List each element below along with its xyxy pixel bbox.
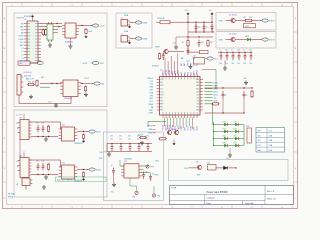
svg-text:RN1: RN1 <box>246 126 249 128</box>
svg-text:VIN5V: VIN5V <box>163 69 165 75</box>
resistor R31 <box>82 172 84 178</box>
test point TP3 <box>152 194 155 197</box>
power arrow 5V-OUT2 <box>262 38 268 41</box>
capacitor C32 <box>129 143 130 144</box>
capacitor C30 <box>111 143 112 144</box>
capacitor C41 <box>42 163 45 171</box>
svg-text:VCC3: VCC3 <box>178 71 180 76</box>
svg-text:DP2: DP2 <box>150 95 154 97</box>
svg-text:CC2: CC2 <box>150 84 154 86</box>
svg-text:J2: J2 <box>121 33 123 35</box>
power arrow +5V-OUT <box>93 24 99 27</box>
svg-text:1u: 1u <box>246 94 248 96</box>
inductor L2 power path <box>18 61 30 65</box>
svg-text:U15: U15 <box>62 162 65 164</box>
svg-text:FB1: FB1 <box>160 107 163 109</box>
svg-text:+5V-P: +5V-P <box>100 25 106 27</box>
svg-text:Q2 SI2301: Q2 SI2301 <box>229 33 237 35</box>
svg-text:IP5328: IP5328 <box>152 65 159 67</box>
wires right of U1 <box>205 82 213 84</box>
svg-text:SW: SW <box>21 33 24 35</box>
IC U12 CW6306 boost <box>124 164 139 178</box>
current table <box>256 128 285 153</box>
LED D15 <box>234 137 239 140</box>
svg-text:10u: 10u <box>198 27 201 29</box>
svg-text:1u: 1u <box>219 50 221 52</box>
resistor R2 4.7K <box>244 19 253 21</box>
svg-text:G: G <box>4 198 6 200</box>
svg-text:U14: U14 <box>19 155 22 157</box>
ground <box>54 103 58 107</box>
svg-text:KEY: KEY <box>160 97 163 99</box>
svg-text:1u: 1u <box>206 27 208 29</box>
svg-text:U13: U13 <box>207 162 210 164</box>
svg-text:104: 104 <box>231 63 234 65</box>
resistor R24 <box>84 86 86 93</box>
transistor Q2 <box>231 37 235 41</box>
svg-text:VIN: VIN <box>160 79 163 81</box>
resistor R20 <box>42 29 44 37</box>
svg-text:U5: U5 <box>24 19 26 21</box>
svg-text:FB2: FB2 <box>160 110 163 112</box>
wire U6 outputs <box>79 25 93 27</box>
wire <box>49 42 51 43</box>
wire risers from U1 bottom <box>164 118 166 127</box>
section box: OTG boost control <box>169 160 289 181</box>
resistor R16 with labels <box>139 137 147 139</box>
svg-text:Sheet: 1/1: Sheet: 1/1 <box>267 198 276 201</box>
power arrow 5V0 <box>94 82 100 85</box>
resistor network RN1 <box>247 128 252 143</box>
svg-text:D17: D17 <box>234 143 237 145</box>
svg-text:SW2: SW2 <box>196 82 199 84</box>
svg-text:U11: U11 <box>193 56 196 58</box>
svg-text:DP1: DP1 <box>150 90 154 92</box>
wire <box>228 131 234 133</box>
capacitor C23 <box>238 52 239 53</box>
ground flag <box>82 178 85 181</box>
svg-text:VB: VB <box>162 54 164 56</box>
wire <box>142 165 148 167</box>
resistor R23 <box>27 84 35 86</box>
ground <box>48 43 52 47</box>
title block frame <box>170 186 294 205</box>
svg-text:5VIN2: 5VIN2 <box>142 38 147 40</box>
svg-text:C32: C32 <box>128 136 131 138</box>
svg-text:5V0: 5V0 <box>99 152 102 154</box>
svg-text:104: 104 <box>243 63 246 65</box>
svg-text:TITLE:: TITLE: <box>171 187 177 189</box>
svg-text:10u: 10u <box>237 50 240 52</box>
wire <box>239 138 244 140</box>
green rail for LEDs <box>213 122 215 146</box>
resistor R17 above U1 <box>158 53 160 61</box>
capacitor C24 <box>244 52 245 53</box>
wire <box>226 20 231 22</box>
capacitor C21 <box>226 52 227 53</box>
wire <box>251 39 261 41</box>
ground under cap row <box>223 66 227 70</box>
svg-text:22u: 22u <box>42 123 45 125</box>
decoupling bus wire <box>218 51 252 53</box>
ground <box>44 137 48 141</box>
svg-text:1u: 1u <box>231 50 233 52</box>
svg-text:C30: C30 <box>110 136 113 138</box>
svg-text:5V-U1: 5V-U1 <box>96 132 101 134</box>
IC U7 CW3055 regulator <box>63 80 78 97</box>
transistor Q7 <box>167 130 171 134</box>
svg-text:CC1: CC1 <box>150 81 154 83</box>
svg-text:U10: U10 <box>62 124 65 126</box>
capacitor C37 <box>142 172 145 180</box>
IC U5 IP5328P main controller (left column) <box>27 21 38 63</box>
svg-text:D16: D16 <box>223 143 226 145</box>
svg-text:22u: 22u <box>249 63 252 65</box>
svg-text:22u: 22u <box>237 63 240 65</box>
resistor R15 <box>159 138 168 140</box>
wire <box>226 39 231 41</box>
ground under U6 <box>69 44 73 48</box>
svg-text:5V OUT: 5V OUT <box>16 115 22 117</box>
LED D2 <box>246 38 251 41</box>
svg-text:Q1 SI2301: Q1 SI2301 <box>229 14 237 16</box>
svg-text:22u: 22u <box>137 139 140 141</box>
svg-text:5VIN: 5VIN <box>219 21 224 23</box>
wire third rail <box>188 36 213 38</box>
power arrow VCC <box>207 57 213 60</box>
section box: 5V input connectors <box>116 13 152 48</box>
svg-text:9V0: 9V0 <box>258 140 261 142</box>
svg-text:I-out: I-out <box>269 129 273 132</box>
IC U9 sync buck <box>20 120 29 140</box>
svg-text:LED3: LED3 <box>214 91 218 93</box>
wire <box>189 167 197 169</box>
svg-text:104: 104 <box>201 42 204 44</box>
svg-text:1u: 1u <box>243 50 245 52</box>
svg-text:G: G <box>295 198 297 200</box>
svg-text:5VIN1: 5VIN1 <box>142 22 147 24</box>
wire stub above IC <box>23 152 25 158</box>
wire cap row gnd <box>221 59 225 61</box>
wire upper rail right of U1 <box>205 87 253 89</box>
wire <box>142 168 144 170</box>
ground <box>140 141 144 145</box>
capacitor C22 <box>232 52 233 53</box>
svg-text:SS34: SS34 <box>245 26 249 28</box>
resistor R31 <box>82 134 84 140</box>
svg-text:L1: L1 <box>22 48 24 50</box>
svg-text:DP1: DP1 <box>160 82 163 84</box>
svg-text:LX1: LX1 <box>181 72 183 75</box>
svg-text:Rev: 1.0: Rev: 1.0 <box>267 191 274 193</box>
diode D3 <box>244 24 256 28</box>
IC U14 sync buck <box>20 158 29 178</box>
wire <box>228 138 234 140</box>
wire <box>216 167 224 169</box>
svg-text:Power bank IP5328: Power bank IP5328 <box>207 191 229 194</box>
section box: USB output regulators <box>14 110 107 197</box>
svg-text:DM1: DM1 <box>160 85 163 87</box>
svg-text:L3: L3 <box>22 54 24 56</box>
net port 5V-IN2 <box>136 37 142 40</box>
svg-text:22u: 22u <box>36 161 39 163</box>
svg-text:22u: 22u <box>146 139 149 141</box>
svg-text:SW2: SW2 <box>187 63 189 66</box>
resistor R30 <box>47 163 49 171</box>
svg-text:VOUT2: VOUT2 <box>269 39 275 41</box>
IC U15 USB identify <box>62 165 75 179</box>
junction <box>81 83 82 84</box>
wire <box>239 145 244 147</box>
svg-text:SW2: SW2 <box>190 63 192 66</box>
ground <box>44 175 48 179</box>
svg-text:D15: D15 <box>234 136 237 138</box>
capacitor C38 <box>149 174 152 182</box>
wire bottom rail <box>18 95 20 104</box>
svg-text:INT1: INT1 <box>194 127 196 131</box>
svg-text:5V0: 5V0 <box>258 135 261 137</box>
capacitor C40 <box>37 163 40 171</box>
svg-text:J1: J1 <box>121 17 123 19</box>
sheet frame column ticks and numbers <box>3 3 298 209</box>
svg-text:J5 XH2.54: J5 XH2.54 <box>23 72 31 74</box>
wire <box>136 186 138 191</box>
LED D12 <box>223 130 228 133</box>
wire LED row 3 <box>214 138 224 140</box>
svg-text:LX2: LX2 <box>184 72 186 75</box>
svg-text:D14: D14 <box>223 136 226 138</box>
ground <box>228 153 232 157</box>
svg-text:PB-5328: PB-5328 <box>8 194 15 196</box>
wire riser <box>187 15 189 22</box>
svg-text:TP3: TP3 <box>157 196 160 198</box>
sheet frame outer border <box>3 3 298 209</box>
resistor R21 <box>45 29 47 37</box>
svg-text:Date:: Date: <box>207 202 212 205</box>
capacitor C16 above U1 <box>162 53 165 61</box>
svg-text:SCL: SCL <box>196 107 199 109</box>
LED D10 <box>223 123 228 126</box>
svg-text:TYPE-C: TYPE-C <box>147 78 154 80</box>
wire stub above IC <box>23 114 25 120</box>
svg-text:LED2: LED2 <box>214 88 218 90</box>
annotation note box <box>56 177 107 182</box>
junction dots right of U1 <box>212 103 213 104</box>
LED D16 <box>223 144 228 147</box>
capacitor C13 <box>187 48 190 56</box>
wire <box>25 186 27 190</box>
wire input rail <box>173 21 212 23</box>
wire <box>120 165 124 167</box>
svg-text:GPIO1: GPIO1 <box>197 70 199 75</box>
svg-text:1u: 1u <box>225 94 227 96</box>
wire <box>81 83 94 85</box>
svg-text:SGM6031: SGM6031 <box>65 42 73 44</box>
svg-text:C34: C34 <box>146 136 149 138</box>
svg-text:10u: 10u <box>152 174 155 176</box>
wire top-right of U1 <box>202 69 216 71</box>
svg-text:5VIN: 5VIN <box>219 40 224 42</box>
ground <box>29 95 33 99</box>
section box: system power <box>104 132 164 201</box>
svg-text:CW3055B: CW3055B <box>64 98 73 100</box>
svg-text:U9: U9 <box>19 117 21 119</box>
svg-text:LO3: LO3 <box>196 100 199 102</box>
wire lower rail right of U1 <box>205 112 245 114</box>
svg-text:U12: U12 <box>124 161 127 163</box>
resistor R26 <box>36 80 38 88</box>
junction <box>56 23 57 24</box>
svg-text:22u: 22u <box>36 123 39 125</box>
svg-text:OTG: OTG <box>184 168 189 170</box>
LED D11 <box>234 123 239 126</box>
resistor R10 <box>187 40 189 48</box>
battery connector J5 <box>17 75 21 96</box>
wire row rail <box>31 174 58 176</box>
LED D14 <box>223 137 228 140</box>
power arrow 5V-U1 <box>89 130 95 133</box>
wire from IC U12 down <box>129 178 131 186</box>
junction <box>81 25 82 26</box>
svg-text:VOUT: VOUT <box>84 78 89 80</box>
resistor R22 100K <box>85 28 87 35</box>
section box: output switch 2 <box>216 32 276 49</box>
svg-text:LX3: LX3 <box>187 72 189 75</box>
ground flag <box>85 35 88 38</box>
ground <box>189 65 193 69</box>
ground flag <box>82 140 85 143</box>
svg-text:10u: 10u <box>249 50 252 52</box>
svg-text:LED1A: LED1A <box>162 124 165 130</box>
wire LED row 2 <box>214 131 224 133</box>
capacitor C40 <box>37 125 40 133</box>
connector J2 USB input <box>121 36 128 43</box>
section box: battery charger circuits <box>14 13 107 107</box>
ground <box>42 185 46 189</box>
svg-text:22u: 22u <box>110 139 113 141</box>
resistor R14 <box>251 90 253 98</box>
sheet frame inner border <box>7 7 294 205</box>
power arrow 5V-OUT1 <box>262 19 268 22</box>
transistor Q9 <box>197 165 201 169</box>
svg-text:SCL1: SCL1 <box>187 126 189 130</box>
ground flag <box>128 41 131 44</box>
transistor Q8 <box>174 130 178 134</box>
svg-text:104: 104 <box>219 63 222 65</box>
resistor R12 <box>212 103 220 105</box>
section box: output switch 1 <box>216 13 276 31</box>
svg-text:SDA1: SDA1 <box>190 126 193 131</box>
ground <box>112 183 116 187</box>
wire <box>228 167 237 169</box>
svg-text:D10: D10 <box>223 122 226 124</box>
svg-text:DM1: DM1 <box>149 87 153 89</box>
svg-text:22u: 22u <box>225 63 228 65</box>
wire U5 pin rows to U6 <box>41 23 63 25</box>
power flag above U5 <box>31 15 34 18</box>
connector J1 USB input <box>121 20 128 27</box>
battery sense part U16 <box>22 178 30 186</box>
wire <box>253 20 261 22</box>
svg-text:L4: L4 <box>22 57 24 59</box>
wire row rail <box>31 136 58 138</box>
wire <box>239 131 244 133</box>
wire <box>30 62 36 64</box>
IC U13 <box>208 165 217 171</box>
test point TP4 <box>146 165 149 168</box>
svg-text:D11: D11 <box>234 122 237 124</box>
capacitor C33 <box>138 143 139 144</box>
net port 5V-IN1 <box>136 21 142 24</box>
capacitor C41 <box>42 125 45 133</box>
wire <box>228 124 234 126</box>
svg-text:1R0: 1R0 <box>19 63 22 65</box>
LED D17 <box>234 144 239 147</box>
wire second rail <box>188 31 213 33</box>
svg-text:1u: 1u <box>111 165 113 167</box>
svg-text:LED1: LED1 <box>245 36 249 38</box>
wire battery rail <box>40 83 62 85</box>
IC U10 USB identify <box>62 127 75 141</box>
wire U6 down <box>70 38 72 44</box>
svg-text:VPH: VPH <box>160 94 163 96</box>
svg-text:Q7 Q8 SS8050: Q7 Q8 SS8050 <box>166 129 176 131</box>
svg-text:Drawn By:: Drawn By: <box>245 202 254 205</box>
capacitor C15 <box>243 91 246 99</box>
svg-text:DM2: DM2 <box>149 92 153 94</box>
resistor R30 <box>47 125 49 133</box>
svg-text:NC12: NC12 <box>197 126 199 131</box>
svg-text:C33: C33 <box>137 136 140 138</box>
svg-text:TP2: TP2 <box>132 197 135 199</box>
svg-text:B+: B+ <box>17 161 19 163</box>
svg-text:LO2: LO2 <box>196 97 199 99</box>
svg-text:CW3002D: CW3002D <box>74 143 83 145</box>
svg-text:ISEN: ISEN <box>148 129 152 131</box>
svg-text:CW6306B: CW6306B <box>124 158 133 160</box>
LED D13 <box>234 130 239 133</box>
battery protection U5B (green body) <box>47 24 53 40</box>
capacitor C10 <box>195 24 198 31</box>
svg-text:SCL: SCL <box>214 98 217 100</box>
IC U11 LDO <box>194 58 205 65</box>
diode D9 <box>224 166 228 169</box>
capacitor C36 <box>112 168 115 176</box>
wire vertical rails <box>195 22 197 32</box>
svg-text:CC2: CC2 <box>160 91 163 93</box>
svg-text:R2: R2 <box>244 17 246 19</box>
IC U1 IP5328 QFN40 power bank SoC <box>160 77 201 116</box>
resistor R11 <box>207 40 209 48</box>
svg-text:5VO: 5VO <box>155 161 159 163</box>
wire <box>239 124 244 126</box>
svg-text:VSEN: VSEN <box>148 133 152 135</box>
svg-text:VOUT1: VOUT1 <box>269 20 275 22</box>
svg-text:LO1: LO1 <box>196 94 199 96</box>
wire <box>130 38 135 40</box>
svg-text:C31: C31 <box>119 136 122 138</box>
wire <box>228 145 234 147</box>
cap row bus wire <box>107 143 152 145</box>
capacitor C31 <box>120 143 121 144</box>
svg-text:SW: SW <box>21 30 24 32</box>
svg-text:22u: 22u <box>42 161 45 163</box>
wire LED row 1 <box>214 124 224 126</box>
wire <box>169 51 184 53</box>
green bus down to LED array <box>212 104 214 125</box>
wire LED row 4 <box>214 145 224 147</box>
wire <box>130 22 135 24</box>
